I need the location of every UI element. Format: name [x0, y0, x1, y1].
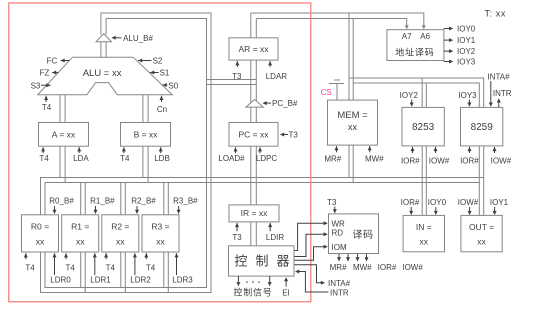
register PC: [229, 123, 278, 147]
svg-text:A6: A6: [420, 32, 430, 41]
svg-text:IR = xx: IR = xx: [241, 208, 268, 218]
svg-text:IOR#: IOR#: [401, 198, 420, 207]
wire bus drop to R1: [81, 183, 86, 215]
svg-text:IOY1: IOY1: [490, 198, 509, 207]
register AR: [229, 38, 278, 60]
svg-text:S1: S1: [160, 69, 170, 78]
svg-text:ALU_B#: ALU_B#: [123, 34, 153, 43]
wire bus drop to R2: [121, 183, 126, 215]
wire bus 8259 to OUT: [479, 146, 483, 216]
svg-text:地址译码: 地址译码: [395, 47, 434, 58]
wire WR: [295, 221, 328, 250]
svg-text:IN =: IN =: [416, 222, 432, 232]
svg-text:IOW#: IOW#: [402, 263, 423, 272]
register A: [39, 123, 89, 147]
svg-text:T3: T3: [289, 131, 299, 140]
svg-text:IOY3: IOY3: [457, 58, 476, 67]
svg-text:LDB: LDB: [154, 154, 170, 163]
wire bus branch drop to 8253: [422, 78, 426, 107]
port OUT: [461, 215, 502, 251]
svg-text:RD: RD: [332, 229, 344, 238]
svg-text:IOY2: IOY2: [457, 47, 476, 56]
svg-text:LDA: LDA: [73, 154, 89, 163]
label IOR# 8259: [460, 147, 479, 166]
svg-text:8259: 8259: [471, 122, 494, 133]
label IOR# decoder: [378, 263, 397, 272]
label FZ: [40, 69, 59, 78]
svg-text:LDR2: LDR2: [130, 276, 151, 285]
wire INTR in: [295, 270, 349, 298]
label Cn ALU: [157, 96, 167, 114]
CPU boundary frame: [9, 3, 311, 302]
svg-text:LDR1: LDR1: [90, 276, 111, 285]
buffer PC_B#: [246, 100, 263, 108]
label INTR 8259: [493, 89, 512, 107]
wire bus top right outer: [251, 13, 426, 29]
svg-text:IOY2: IOY2: [400, 91, 419, 100]
svg-text:IOY0: IOY0: [428, 198, 447, 207]
label EI: [282, 277, 290, 297]
wire bus main horizontal upper line: [41, 178, 484, 215]
register R1: [62, 215, 99, 252]
label IOW# OUT: [458, 198, 479, 215]
svg-text:R2_B#: R2_B#: [131, 197, 156, 206]
register IR: [229, 205, 279, 222]
svg-text:R1 =: R1 =: [71, 222, 89, 232]
label LDA: [73, 147, 89, 163]
svg-text:IOW#: IOW#: [429, 157, 450, 166]
label T3 AR: [232, 61, 242, 81]
svg-text:INTR: INTR: [493, 89, 512, 98]
wire bus top right inner: [256, 19, 408, 30]
memory MEM: [328, 100, 378, 145]
wire RD: [295, 232, 328, 256]
label S0: [163, 81, 179, 90]
svg-text:MW#: MW#: [353, 263, 372, 272]
svg-text:R1_B#: R1_B#: [90, 197, 115, 206]
wire bus triangle to ALU top: [101, 42, 106, 58]
label control signals: [233, 286, 272, 297]
svg-text:T3: T3: [327, 198, 337, 207]
svg-text:INTA#: INTA#: [328, 279, 351, 288]
chip-select ground: [329, 80, 344, 100]
register R2: [102, 215, 139, 252]
wire bus R2 bottom: [121, 252, 126, 293]
control signal arrows: [236, 276, 271, 286]
svg-text:FC: FC: [47, 56, 58, 65]
svg-text:A7: A7: [402, 32, 412, 41]
label IOY1 OUT: [490, 198, 509, 215]
label IOY2 8253: [400, 91, 419, 107]
svg-text:控制信号: 控制信号: [233, 286, 272, 297]
svg-text:译码: 译码: [353, 229, 374, 241]
svg-text:MW#: MW#: [365, 155, 384, 164]
label R2_B#: [131, 197, 156, 215]
label PC_B#: [263, 99, 298, 108]
svg-text:控制器: 控制器: [234, 253, 297, 268]
label R1_B#: [90, 197, 115, 215]
svg-text:S0: S0: [168, 81, 178, 90]
label LDB: [154, 147, 170, 163]
svg-text:R3 =: R3 =: [151, 222, 169, 232]
wire bus drop to R3: [164, 183, 169, 215]
label S2: [138, 56, 163, 65]
register R0: [22, 215, 59, 252]
svg-text:MR#: MR#: [324, 155, 341, 164]
svg-text:LDIR: LDIR: [266, 233, 284, 242]
svg-text:LDAR: LDAR: [266, 72, 288, 81]
label IOY0 address-decoder out: [444, 25, 476, 34]
svg-text:LDPC: LDPC: [256, 154, 278, 163]
chip 8259: [461, 107, 503, 145]
svg-text:PC = xx: PC = xx: [239, 129, 270, 139]
svg-text:xx: xx: [76, 236, 85, 246]
svg-text:ALU = xx: ALU = xx: [83, 68, 122, 79]
label T4 A: [39, 147, 49, 163]
label T4 B: [120, 147, 130, 163]
svg-text:T4: T4: [146, 263, 156, 272]
svg-text:T4: T4: [42, 103, 52, 112]
svg-text:xx: xx: [116, 236, 125, 246]
label ALU_B#: [112, 34, 154, 43]
svg-text:INTA#: INTA#: [487, 73, 510, 82]
wire bus R1 bottom: [81, 252, 86, 293]
label T:xx: [485, 9, 507, 19]
svg-text:T: xx: T: xx: [485, 9, 507, 19]
label IOW# decoder: [402, 263, 423, 272]
svg-text:IOY3: IOY3: [458, 91, 477, 100]
svg-text:FZ: FZ: [40, 69, 50, 78]
svg-text:EI: EI: [282, 289, 290, 298]
wire bus MEM column: [349, 13, 353, 183]
label CS: [321, 88, 332, 97]
svg-text:MR#: MR#: [330, 263, 347, 272]
svg-text:IOR#: IOR#: [460, 157, 479, 166]
wire bus AR-PC-IR column: [251, 13, 256, 246]
label T4 R3: [144, 253, 155, 272]
wire bus 8253 to IN: [422, 146, 426, 216]
label LDR3: [172, 253, 193, 285]
label LDR0: [50, 253, 71, 285]
label MR# MEM: [324, 146, 341, 164]
svg-text:R3_B#: R3_B#: [173, 197, 198, 206]
label T4 R0: [24, 253, 35, 272]
wire bus ALU output loop outer: [41, 13, 212, 293]
svg-text:IOW#: IOW#: [458, 198, 479, 207]
svg-text:IOR#: IOR#: [378, 263, 397, 272]
controller box: [229, 246, 298, 276]
svg-text:IOR#: IOR#: [401, 157, 420, 166]
wire bus main horizontal lower line: [45, 183, 479, 215]
label IOW# 8253: [429, 147, 450, 166]
label LOAD#: [218, 147, 245, 163]
svg-text:IOW#: IOW#: [491, 157, 512, 166]
svg-text:T3: T3: [232, 233, 242, 242]
label S3: [31, 82, 51, 91]
label IOY3 8259: [458, 91, 477, 107]
label R0_B#: [49, 197, 74, 215]
label LDAR: [266, 61, 288, 81]
svg-text:R0_B#: R0_B#: [49, 197, 74, 206]
label LDR1: [90, 253, 111, 285]
label LDPC: [256, 147, 278, 163]
svg-text:R2 =: R2 =: [111, 222, 129, 232]
svg-text:xx: xx: [156, 236, 165, 246]
address decoder box: [387, 30, 444, 61]
svg-text:B = xx: B = xx: [134, 129, 159, 139]
svg-text:A = xx: A = xx: [52, 129, 76, 139]
label T3 PC: [280, 131, 298, 140]
register R3: [142, 215, 179, 252]
label T4 R1: [64, 253, 75, 272]
svg-text:AR = xx: AR = xx: [239, 44, 270, 54]
label MW# decoder: [353, 263, 372, 272]
label IOY0 IN: [428, 198, 447, 215]
svg-text:8253: 8253: [412, 122, 435, 133]
decoder box: [329, 214, 379, 254]
svg-text:S3: S3: [31, 82, 41, 91]
svg-text:INTR: INTR: [330, 289, 349, 298]
decoder outputs: [337, 254, 369, 262]
port IN: [403, 215, 444, 251]
svg-text:MEM =: MEM =: [337, 110, 368, 121]
label LDIR: [266, 223, 284, 242]
label IOY2 address-decoder out: [444, 47, 476, 56]
svg-text:LDR0: LDR0: [50, 276, 71, 285]
label MW# MEM: [365, 146, 384, 164]
svg-text:Cn: Cn: [157, 105, 167, 114]
label INTA# 8259: [487, 73, 510, 107]
wire bus branch to 8259: [349, 78, 484, 107]
svg-text:WR: WR: [332, 220, 346, 229]
svg-text:T4: T4: [39, 154, 49, 163]
label IOR# IN: [401, 198, 420, 215]
wire INTA# out: [295, 265, 351, 288]
label S1: [150, 69, 170, 78]
label MR# decoder: [330, 263, 347, 272]
wire IOM: [295, 245, 328, 260]
svg-text:IOM: IOM: [332, 243, 347, 252]
label T4 R2: [104, 253, 115, 272]
ALU U1: [38, 57, 173, 95]
svg-text:xx: xx: [420, 237, 429, 247]
svg-text:LDR3: LDR3: [172, 276, 193, 285]
svg-text:T4: T4: [25, 263, 35, 272]
wire bus B column: [143, 95, 148, 183]
svg-text:PC_B#: PC_B#: [272, 99, 298, 108]
label T4 ALU: [42, 96, 52, 112]
svg-text:LOAD#: LOAD#: [218, 154, 245, 163]
label IOY3 address-decoder out: [444, 58, 476, 67]
chip 8253: [402, 107, 444, 145]
wire bus A column: [60, 95, 65, 183]
svg-text:T4: T4: [120, 154, 130, 163]
register B: [121, 123, 171, 147]
buffer ALU_B#: [96, 34, 112, 42]
svg-text:CS: CS: [321, 88, 332, 97]
label IOW# 8259: [491, 147, 512, 166]
label R3_B#: [173, 197, 198, 215]
svg-text:IOY1: IOY1: [457, 36, 476, 45]
svg-text:T3: T3: [232, 72, 242, 81]
wire bus U segment to PC column: [207, 80, 257, 85]
svg-text:OUT =: OUT =: [469, 222, 494, 232]
svg-text:S2: S2: [153, 56, 163, 65]
label FC: [47, 56, 70, 65]
label T3 IR: [232, 223, 242, 242]
label IOR# 8253: [401, 147, 420, 166]
label IOY1 address-decoder out: [444, 36, 476, 45]
label T3 decoder: [327, 198, 337, 214]
svg-text:xx: xx: [36, 236, 45, 246]
svg-text:T4: T4: [106, 263, 116, 272]
svg-text:T4: T4: [66, 263, 76, 272]
svg-text:xx: xx: [348, 122, 358, 132]
svg-text:xx: xx: [477, 237, 486, 247]
svg-text:R0 =: R0 =: [31, 222, 49, 232]
svg-text:IOY0: IOY0: [457, 25, 476, 34]
wire bus ALU output loop inner: [45, 19, 207, 288]
label LDR2: [130, 253, 151, 285]
wire bus R3 bottom: [164, 252, 169, 293]
